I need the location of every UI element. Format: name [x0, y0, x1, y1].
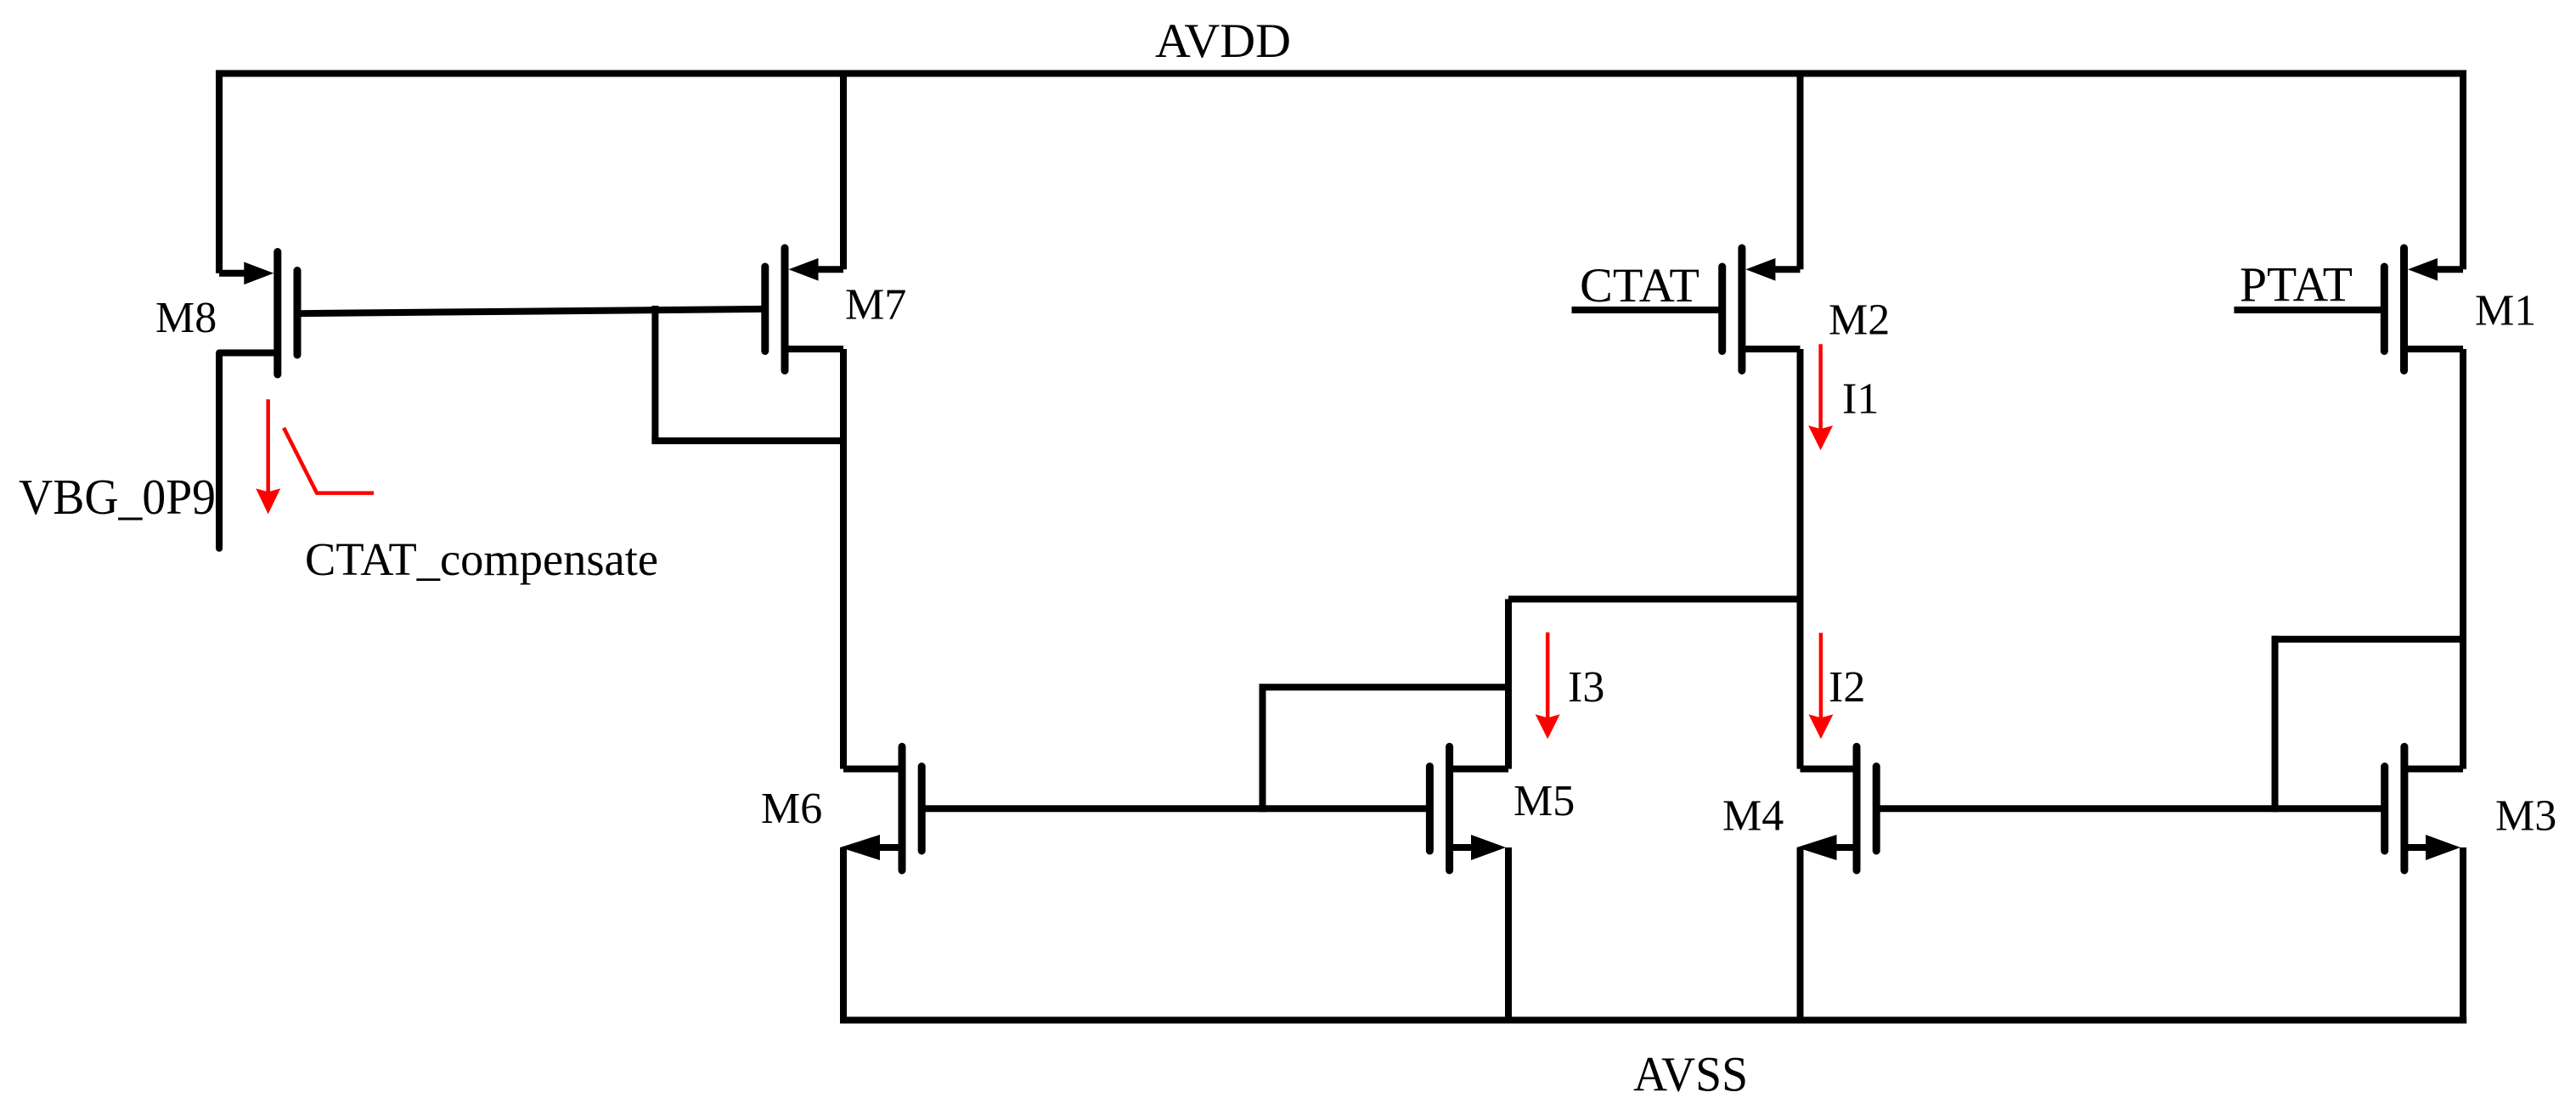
svg-text:M1: M1 [2475, 287, 2536, 335]
svg-text:CTAT_compensate: CTAT_compensate [305, 533, 658, 585]
svg-text:M7: M7 [845, 280, 906, 329]
svg-text:AVSS: AVSS [1633, 1047, 1748, 1102]
svg-text:M3: M3 [2495, 792, 2556, 841]
svg-text:M2: M2 [1829, 296, 1890, 345]
svg-text:CTAT: CTAT [1580, 259, 1699, 312]
svg-text:I3: I3 [1568, 663, 1604, 712]
svg-text:M4: M4 [1722, 792, 1784, 841]
svg-text:VBG_0P9: VBG_0P9 [19, 469, 216, 525]
svg-text:PTAT: PTAT [2240, 257, 2353, 312]
svg-text:M5: M5 [1513, 777, 1575, 825]
svg-text:M6: M6 [761, 785, 822, 833]
svg-text:AVDD: AVDD [1155, 14, 1291, 68]
svg-text:I2: I2 [1829, 663, 1865, 712]
svg-text:M8: M8 [155, 294, 217, 342]
svg-text:I1: I1 [1842, 375, 1879, 424]
